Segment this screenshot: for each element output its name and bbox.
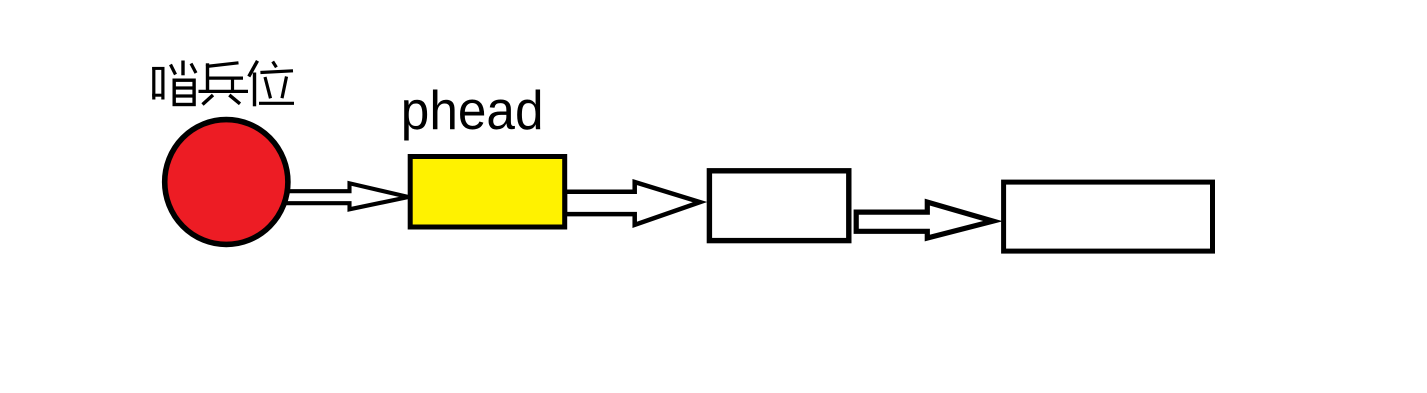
位 right inner stroke [282,77,287,99]
arrow 1 (circle to phead node) [285,183,409,209]
位 bottom horizontal [259,102,294,105]
node 3 white rectangle [1004,182,1213,251]
哨 small-dot right [191,64,196,74]
phead node yellow rectangle [410,157,565,228]
哨 small-dot left [171,65,176,75]
兵 long bottom horizontal [199,90,249,93]
哨 moon inner line 1 [175,86,194,89]
label 哨兵位 (sentinel position), hand-drawn strokes [152,61,294,107]
arrow 2 (phead node to node 2) [565,182,700,225]
位 top horizontal [260,71,293,73]
位 left inner stroke [265,77,271,98]
arrow 3 (node 2 to node 3) [856,202,993,238]
兵 middle vertical [231,78,234,91]
svg-text:phead: phead [401,80,544,141]
哨 moon box [174,80,194,104]
哨 mouth radical 口 top bar [152,67,164,70]
位 top dot [273,62,277,68]
兵 middle horizontal [206,76,243,79]
哨 moon inner line 2 [175,94,194,97]
位 person diagonal [249,61,258,77]
哨 small vertical [181,61,184,76]
兵 top horizontal [206,63,239,67]
兵 bottom-left dot [203,95,214,105]
兵 left vertical [206,63,209,90]
哨 mouth radical 口 right vertical [161,67,164,100]
哨 mouth radical 口 bottom bar [152,94,164,97]
哨 mouth radical 口 left vertical [152,67,155,100]
位 person vertical [253,73,256,107]
node 2 white rectangle [709,171,848,241]
sentinel node red circle [165,120,288,245]
兵 bottom-right dot [229,95,240,104]
